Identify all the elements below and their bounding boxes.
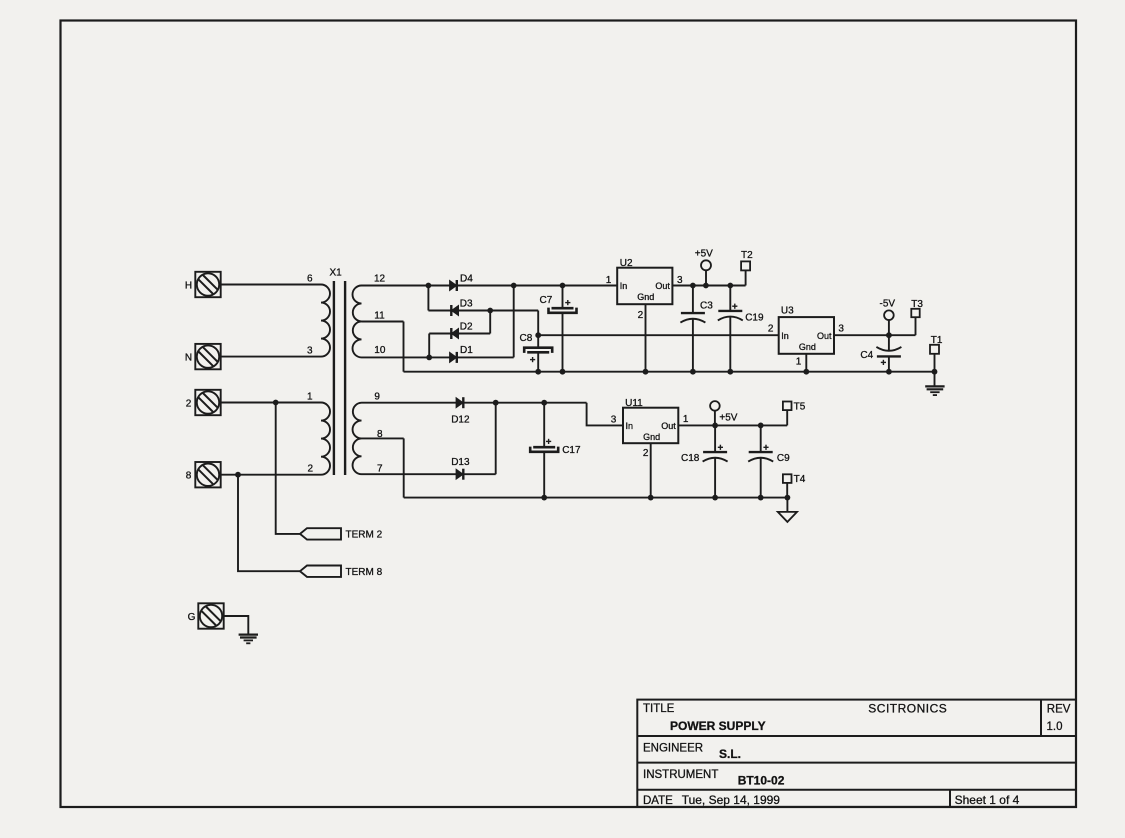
- capacitor C4: [860, 347, 901, 365]
- svg-text:2: 2: [643, 448, 649, 459]
- wire C9 bottom lead: [760, 458, 762, 498]
- svg-text:+5V: +5V: [695, 249, 713, 260]
- svg-text:TITLE: TITLE: [643, 703, 675, 715]
- svg-text:Sheet 1 of 4: Sheet 1 of 4: [955, 793, 1020, 807]
- wire riser D2 to D1 row: [428, 334, 430, 358]
- wire -input rail to U3 In (pin 2): [538, 334, 779, 336]
- wire G to earth ground: [224, 616, 249, 634]
- terminal T3: [911, 299, 923, 317]
- svg-text:H: H: [185, 280, 192, 291]
- wire + riser D1 to top rail: [513, 286, 515, 358]
- wire +5V symbol lead: [705, 270, 707, 285]
- wire ground rail to earth: [934, 372, 936, 387]
- node junction on wire 2: [273, 400, 279, 406]
- wire -5V symbol lead: [888, 320, 890, 335]
- svg-text:ENGINEER: ENGINEER: [643, 743, 703, 755]
- svg-text:INSTRUMENT: INSTRUMENT: [643, 769, 718, 781]
- capacitor C9: [748, 445, 790, 464]
- node junction lower +5V rail / C9: [758, 423, 764, 429]
- TERM 8 flag connector: [300, 566, 383, 579]
- svg-text:C18: C18: [681, 453, 700, 464]
- wire C8 bottom lead: [537, 352, 539, 371]
- wire X1 pin 8 center tap: [362, 437, 404, 439]
- capacitor C18: [681, 445, 728, 464]
- svg-text:1: 1: [606, 275, 612, 286]
- wire upper ground rail: [404, 371, 935, 373]
- node junction lower ground rail / C9: [758, 495, 764, 501]
- wire X1 pin 9 to D12 anode: [362, 402, 457, 404]
- wire U3 Out -5V rail: [834, 334, 916, 336]
- wire center tap down to lower ground rail: [403, 438, 405, 497]
- svg-text:G: G: [188, 612, 196, 623]
- svg-text:1: 1: [796, 357, 802, 368]
- wire C4 bottom lead: [888, 356, 890, 371]
- svg-text:SCITRONICS: SCITRONICS: [868, 702, 947, 716]
- transformer X1 core lines: [333, 281, 335, 475]
- svg-text:C19: C19: [745, 312, 764, 323]
- diode D13: [451, 457, 470, 480]
- node junction ground rail / C3: [690, 369, 696, 375]
- svg-text:U11: U11: [625, 398, 643, 409]
- wire N to X1 pin 3: [221, 356, 321, 358]
- svg-text:11: 11: [374, 311, 385, 322]
- node junction pin12/D3 branch: [426, 283, 432, 289]
- node junction ground rail / C19: [727, 369, 733, 375]
- title block frame: [637, 700, 1076, 807]
- wire T1 lead to ground rail: [934, 354, 936, 372]
- svg-text:Gnd: Gnd: [799, 342, 816, 352]
- wire X1 pin 12 to D4 anode: [362, 285, 450, 287]
- wire C19 top lead: [729, 286, 731, 311]
- wire C4 top lead: [888, 335, 890, 351]
- wire U11 Gnd pin 2 to lower ground rail: [650, 443, 652, 497]
- node junction ground rail / C4: [886, 369, 892, 375]
- wire C18 bottom lead: [714, 458, 716, 498]
- svg-text:X1: X1: [330, 268, 343, 279]
- wire branch down to D3: [427, 286, 429, 311]
- wire D3-D2 junction down: [489, 311, 491, 334]
- transformer X1 secondary winding upper (pins 12-11-10): [353, 286, 362, 358]
- wire D1 cathode to + riser: [457, 356, 514, 358]
- node junction ground rail / U3 Gnd: [803, 369, 809, 375]
- svg-text:D12: D12: [451, 414, 470, 425]
- svg-text:Out: Out: [661, 421, 676, 431]
- svg-text:T2: T2: [741, 250, 753, 261]
- wire U11 Out +5V rail (lower): [678, 424, 787, 426]
- ground earth symbol at T1: [925, 386, 944, 395]
- svg-text:TERM 8: TERM 8: [346, 567, 383, 578]
- wire C7 top lead: [562, 286, 564, 309]
- wire T5 lead: [786, 410, 788, 425]
- svg-text:T5: T5: [794, 401, 806, 412]
- wire D2 anode row: [459, 333, 490, 335]
- wire D13 cathode to riser: [464, 473, 496, 475]
- diode D1: [450, 345, 474, 363]
- terminal H (screw): [185, 272, 221, 297]
- wire T4 lead: [786, 483, 788, 498]
- node junction ground rail / C7: [560, 369, 566, 375]
- svg-text:TERM 2: TERM 2: [346, 530, 383, 541]
- node junction + rail / C7: [560, 283, 566, 289]
- svg-text:Gnd: Gnd: [637, 292, 654, 302]
- node junction lower ground rail / C17: [541, 495, 547, 501]
- svg-text:U2: U2: [620, 258, 633, 269]
- svg-text:In: In: [626, 421, 634, 431]
- svg-text:2: 2: [638, 310, 644, 321]
- svg-text:2: 2: [186, 398, 192, 409]
- ground signal-ground triangle symbol: [778, 512, 797, 522]
- wire C7 bottom lead: [562, 313, 564, 372]
- svg-text:2: 2: [768, 323, 774, 334]
- node junction D12 rail / C17: [541, 400, 547, 406]
- wire U2 Gnd pin 2 to ground rail: [645, 304, 647, 372]
- wire U2 Out +5V rail: [672, 285, 745, 287]
- node junction pin10/D2 riser: [426, 355, 432, 361]
- wire C3 top lead: [692, 286, 694, 314]
- svg-text:3: 3: [677, 275, 683, 286]
- transformer X1 primary winding upper (pins 6-3): [321, 285, 330, 357]
- svg-text:6: 6: [307, 273, 313, 284]
- node junction + rail / D1 cathode riser: [511, 283, 517, 289]
- node junction C8 / -input rail: [535, 332, 541, 338]
- svg-text:REV: REV: [1047, 704, 1071, 716]
- ground earth symbol at G: [239, 635, 258, 644]
- wire terminal 2 to X1 pin 1: [221, 402, 321, 404]
- svg-text:BT10-02: BT10-02: [738, 774, 785, 788]
- node junction lower ground rail / U11 Gnd: [648, 495, 654, 501]
- svg-text:C8: C8: [520, 333, 533, 344]
- terminal T5: [783, 401, 806, 412]
- wire lower ground rail: [404, 497, 788, 499]
- terminal 2 (screw): [186, 390, 221, 415]
- node junction D12 rail / D13 riser: [493, 400, 499, 406]
- wire center tap down to ground rail: [403, 322, 405, 372]
- terminal T2: [741, 250, 753, 271]
- wire C18 top lead: [714, 425, 716, 452]
- transformer X1 primary winding lower (pins 1-2): [321, 403, 330, 475]
- svg-text:S.L.: S.L.: [719, 747, 741, 761]
- node junction lower +5V rail / C18 / +5V symbol: [712, 423, 718, 429]
- wire X1 pin 11 center tap: [362, 321, 404, 323]
- svg-text:10: 10: [374, 345, 386, 356]
- wire to D3 cathode bar: [428, 310, 451, 312]
- svg-text:T3: T3: [911, 299, 923, 310]
- svg-text:2: 2: [307, 464, 313, 475]
- capacitor C7: [540, 295, 577, 313]
- transformer X1 secondary winding lower (pins 9-8-7): [353, 403, 362, 475]
- wire C17 top lead: [543, 403, 545, 448]
- svg-text:1.0: 1.0: [1047, 721, 1063, 733]
- wire D4 cathode to U2 In (unregulated + rail): [457, 285, 617, 287]
- diode D12: [451, 397, 470, 425]
- TERM 2 flag connector: [300, 528, 383, 541]
- svg-text:8: 8: [186, 471, 192, 482]
- node junction +5V rail / C19: [727, 283, 733, 289]
- wire C9 top lead: [760, 425, 762, 452]
- svg-text:T1: T1: [931, 335, 943, 346]
- terminal T4: [783, 474, 806, 485]
- node junction -5V rail / C4 / -5V symbol: [886, 332, 892, 338]
- svg-text:7: 7: [377, 463, 383, 474]
- wire U3 Gnd pin 1 to ground rail: [805, 354, 807, 372]
- svg-text:12: 12: [374, 273, 386, 284]
- terminal 8 (screw): [186, 462, 221, 487]
- svg-text:1: 1: [683, 414, 689, 425]
- wire X1 pin 10 to D1 anode: [362, 356, 450, 358]
- wire X1 pin 7 to D13 anode: [362, 473, 457, 475]
- terminal G (screw): [188, 603, 224, 628]
- regulator U11: [611, 398, 689, 459]
- node junction on wire 8: [235, 472, 241, 478]
- capacitor C17: [530, 439, 581, 456]
- wire unregulated minus node down to C8 rail: [537, 311, 539, 336]
- svg-text:D2: D2: [460, 322, 473, 333]
- wire junction down to TERM 8 flag: [238, 475, 300, 572]
- capacitor C3: [680, 301, 713, 323]
- wire step down into U11 In: [587, 403, 623, 426]
- terminal N (screw): [185, 344, 221, 369]
- svg-text:C9: C9: [777, 453, 790, 464]
- node junction lower ground rail / C18: [712, 495, 718, 501]
- svg-text:1: 1: [307, 392, 313, 403]
- wire D13 riser: [495, 403, 497, 475]
- node junction ground rail / U2 Gnd: [643, 369, 649, 375]
- svg-text:D3: D3: [460, 299, 473, 310]
- node junction lower ground rail / T4/gnd: [785, 495, 791, 501]
- power +5V symbol (lower): [710, 401, 720, 411]
- wire C17 bottom lead: [543, 452, 545, 498]
- svg-text:C7: C7: [540, 295, 553, 306]
- transformer X1: [307, 268, 386, 476]
- regulator U2: [606, 258, 683, 321]
- svg-text:Gnd: Gnd: [643, 432, 660, 442]
- svg-text:Out: Out: [817, 331, 832, 341]
- svg-text:D4: D4: [460, 274, 473, 285]
- svg-text:D13: D13: [451, 457, 470, 468]
- wire C3 bottom lead: [692, 319, 694, 372]
- wire H to X1 pin 6: [221, 284, 321, 286]
- svg-text:C17: C17: [562, 445, 581, 456]
- capacitor C8: [520, 333, 553, 362]
- svg-text:+5V: +5V: [719, 412, 737, 423]
- power +5V symbol (top): [695, 249, 713, 271]
- svg-text:C4: C4: [860, 350, 873, 361]
- svg-text:T4: T4: [794, 474, 806, 485]
- diode D3: [451, 299, 473, 316]
- wire D12 cathode rail to U11 step: [464, 402, 587, 404]
- wire C19 bottom lead: [729, 316, 731, 371]
- svg-text:U3: U3: [781, 306, 794, 317]
- svg-text:9: 9: [374, 392, 380, 403]
- diode D4: [450, 274, 474, 291]
- svg-text:DATE: DATE: [643, 795, 673, 807]
- node junction ground rail / C8: [535, 369, 541, 375]
- wire lower ground rail to signal ground: [786, 498, 788, 512]
- wire D3 anode right: [459, 310, 538, 312]
- svg-text:Out: Out: [655, 281, 670, 291]
- regulator U3: [768, 306, 845, 368]
- svg-text:N: N: [185, 352, 192, 363]
- svg-text:In: In: [620, 281, 628, 291]
- wire terminal 8 to X1 pin 2: [221, 474, 321, 476]
- wire D2 cathode left to riser: [429, 333, 451, 335]
- svg-text:C3: C3: [700, 301, 713, 312]
- svg-text:3: 3: [838, 323, 844, 334]
- wire lower +5V symbol lead: [714, 411, 716, 426]
- svg-text:3: 3: [307, 346, 313, 357]
- wire C8 top lead: [537, 335, 539, 348]
- svg-text:3: 3: [611, 415, 617, 426]
- node junction D3/D2 anodes: [487, 308, 493, 314]
- svg-text:In: In: [781, 331, 789, 341]
- terminal T1: [930, 335, 943, 354]
- svg-text:-5V: -5V: [880, 298, 896, 309]
- svg-text:D1: D1: [460, 345, 473, 356]
- wire T3 lead: [915, 317, 917, 335]
- power -5V symbol: [880, 298, 896, 320]
- wire junction down to TERM 2 flag: [276, 403, 300, 534]
- node junction +5V rail / +5V symbol: [703, 283, 709, 289]
- svg-text:POWER SUPPLY: POWER SUPPLY: [670, 719, 766, 733]
- diode D2: [451, 322, 473, 339]
- node junction +5V rail / C3: [690, 283, 696, 289]
- capacitor C19: [718, 304, 764, 324]
- node junction ground rail / T1/earth: [932, 369, 938, 375]
- wire T2 lead: [745, 270, 747, 285]
- svg-text:Tue, Sep 14, 1999: Tue, Sep 14, 1999: [682, 793, 781, 807]
